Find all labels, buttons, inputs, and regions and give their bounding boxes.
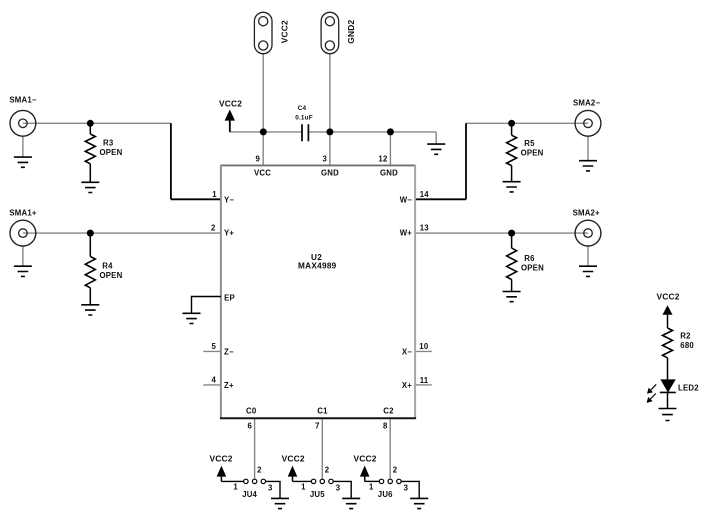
- svg-text:JU5: JU5: [310, 490, 325, 499]
- svg-text:14: 14: [420, 190, 430, 199]
- svg-text:GND2: GND2: [346, 20, 356, 44]
- svg-text:Y+: Y+: [224, 229, 234, 238]
- svg-text:W−: W−: [400, 195, 413, 204]
- svg-text:C2: C2: [383, 406, 394, 415]
- svg-text:7: 7: [315, 422, 320, 431]
- svg-text:R6: R6: [524, 254, 535, 263]
- svg-text:VCC2: VCC2: [282, 453, 305, 463]
- svg-text:6: 6: [247, 422, 252, 431]
- svg-text:R2: R2: [680, 332, 691, 341]
- svg-text:Z+: Z+: [224, 381, 234, 390]
- svg-text:3: 3: [336, 484, 341, 493]
- svg-text:X−: X−: [402, 347, 412, 356]
- svg-text:3: 3: [322, 154, 327, 163]
- svg-text:1: 1: [233, 482, 238, 491]
- svg-text:U2: U2: [311, 253, 322, 262]
- svg-text:C1: C1: [317, 406, 328, 415]
- svg-text:2: 2: [393, 465, 398, 474]
- svg-text:VCC2: VCC2: [219, 98, 242, 108]
- svg-text:Y−: Y−: [224, 195, 234, 204]
- svg-text:2: 2: [257, 465, 262, 474]
- svg-text:C0: C0: [246, 406, 257, 415]
- svg-text:JU6: JU6: [378, 490, 393, 499]
- svg-text:Z−: Z−: [224, 347, 234, 356]
- svg-text:11: 11: [420, 376, 429, 385]
- svg-text:LED2: LED2: [678, 384, 699, 393]
- svg-text:W+: W+: [400, 229, 413, 238]
- svg-text:OPEN: OPEN: [521, 264, 544, 273]
- svg-text:VCC: VCC: [254, 169, 271, 178]
- svg-text:680: 680: [680, 341, 694, 350]
- svg-text:0.1uF: 0.1uF: [295, 115, 313, 122]
- svg-text:R3: R3: [103, 139, 114, 148]
- svg-text:R5: R5: [524, 139, 535, 148]
- svg-text:2: 2: [325, 465, 330, 474]
- svg-text:GND: GND: [321, 169, 339, 178]
- svg-text:SMA1+: SMA1+: [9, 209, 36, 218]
- svg-text:3: 3: [268, 484, 273, 493]
- svg-text:3: 3: [404, 484, 409, 493]
- svg-text:1: 1: [301, 482, 306, 491]
- svg-text:OPEN: OPEN: [100, 271, 123, 280]
- svg-text:C4: C4: [298, 105, 307, 112]
- svg-text:X+: X+: [402, 381, 412, 390]
- svg-text:SMA2−: SMA2−: [573, 98, 600, 107]
- svg-text:9: 9: [255, 154, 260, 163]
- svg-text:2: 2: [211, 224, 216, 233]
- svg-text:SMA2+: SMA2+: [573, 209, 600, 218]
- svg-text:10: 10: [419, 342, 429, 351]
- svg-text:1: 1: [369, 482, 374, 491]
- svg-text:VCC2: VCC2: [354, 453, 377, 463]
- svg-text:JU4: JU4: [242, 490, 257, 499]
- svg-text:VCC2: VCC2: [279, 20, 289, 43]
- svg-text:SMA1−: SMA1−: [9, 96, 36, 105]
- svg-text:OPEN: OPEN: [521, 149, 544, 158]
- svg-text:MAX4989: MAX4989: [298, 262, 337, 271]
- svg-text:R4: R4: [102, 262, 113, 271]
- svg-text:8: 8: [383, 422, 388, 431]
- svg-text:13: 13: [420, 224, 430, 233]
- svg-text:EP: EP: [224, 294, 235, 303]
- svg-text:1: 1: [212, 190, 217, 199]
- svg-text:OPEN: OPEN: [100, 148, 123, 157]
- svg-text:GND: GND: [380, 169, 398, 178]
- svg-text:5: 5: [211, 342, 216, 351]
- svg-text:4: 4: [211, 375, 216, 384]
- svg-text:VCC2: VCC2: [210, 453, 233, 463]
- svg-text:VCC2: VCC2: [657, 291, 680, 301]
- svg-text:12: 12: [378, 154, 388, 163]
